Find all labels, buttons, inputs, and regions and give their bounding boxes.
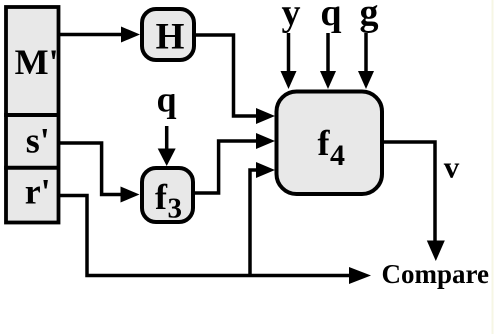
svg-text:Compare: Compare — [382, 259, 490, 289]
svg-text:r': r' — [25, 171, 51, 211]
svg-text:v: v — [444, 150, 460, 185]
divider M'/s' — [4, 113, 60, 117]
wire M' to H — [58, 33, 126, 37]
wire q into f4 — [326, 33, 330, 74]
box f3 — [142, 168, 193, 222]
wire y into f4 — [287, 33, 291, 74]
wire H to f4 top input — [194, 35, 260, 116]
wire riser from bottom rail to f4 lower input — [250, 170, 258, 277]
svg-text:q: q — [320, 0, 341, 34]
arrowhead g into f4 — [358, 71, 374, 89]
faint page edge line at right — [492, 0, 494, 334]
arrowhead q into f3 — [158, 149, 176, 167]
arrowhead y into f4 — [281, 71, 297, 89]
svg-text:f: f — [155, 177, 168, 217]
wire f3 to f4 middle input — [193, 141, 260, 193]
arrowhead into H — [121, 27, 140, 43]
svg-text:y: y — [282, 0, 301, 34]
arrowhead into f4 top input — [256, 108, 275, 124]
wire r' to bottom rail and Compare — [58, 196, 351, 276]
svg-text:3: 3 — [168, 193, 183, 225]
wire g into f4 — [364, 33, 368, 74]
arrowhead v down to Compare — [427, 241, 445, 262]
arrowhead into f4 middle input — [256, 133, 275, 149]
arrowhead into f3 left — [121, 187, 140, 203]
box f4 — [277, 92, 383, 195]
divider s'/r' — [4, 166, 60, 170]
svg-text:f: f — [318, 123, 331, 163]
box H — [142, 9, 194, 60]
svg-text:q: q — [156, 80, 176, 120]
svg-text:4: 4 — [330, 139, 345, 172]
wire f4 output v — [382, 142, 435, 242]
svg-text:g: g — [360, 0, 379, 34]
svg-text:M': M' — [15, 42, 59, 82]
block M'/s'/r' stack outline — [6, 7, 59, 223]
arrowhead q into f4 — [320, 71, 336, 89]
wire q into f3 — [165, 126, 169, 151]
svg-text:H: H — [156, 16, 185, 57]
wire s' to f3 — [58, 143, 125, 195]
arrowhead into f4 lower input — [256, 162, 275, 178]
svg-text:s': s' — [26, 121, 50, 161]
arrowhead into Compare — [349, 267, 371, 284]
